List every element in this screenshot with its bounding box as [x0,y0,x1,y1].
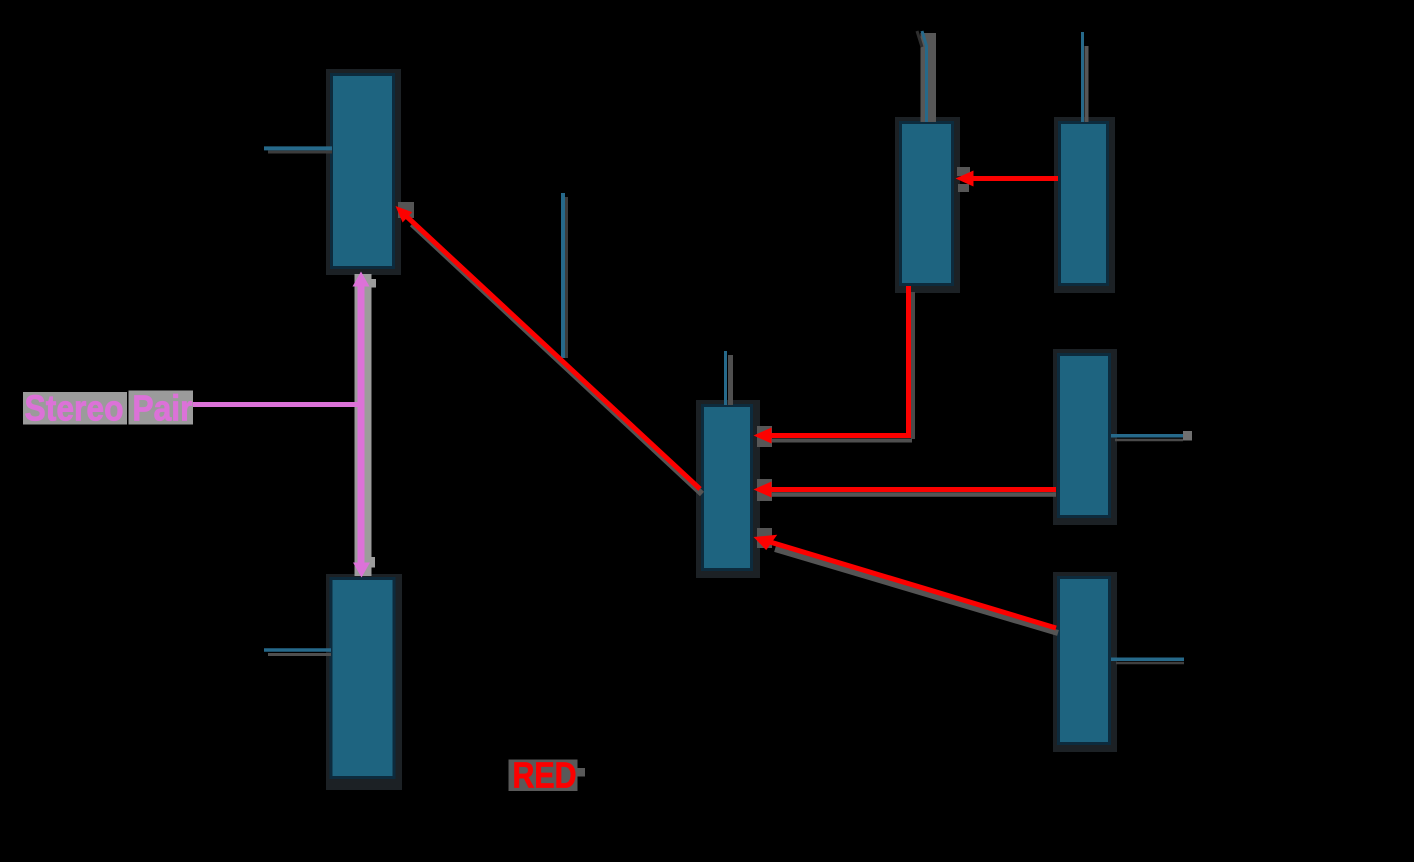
arrowhead at box D of red arrow E to D [956,171,974,187]
shadow of tall stub wire at center-left [565,197,568,358]
dark tick at top of box D stub wire [917,31,922,47]
box F (middle-right block) [1059,355,1110,517]
shadow block behind word Stereo [23,392,127,425]
shadow of callout wire right of box G [1116,662,1184,665]
callout wire left of box A [264,146,332,150]
stub wire above box E [1081,32,1084,122]
shadow band of stub wire above box E [1085,46,1089,122]
shadow block at head of red diagonal arrow G to C [757,528,772,548]
shadow block behind word RED [509,760,578,792]
shadow of red diagonal arrow C to A [412,224,702,494]
box A (top-left camera block) [332,75,394,268]
red diagonal arrow from box G to box C [769,542,1056,628]
shadow of callout wire right of box F [1115,439,1183,442]
callout wire left of box B [264,648,331,652]
red diagonal arrow from box C to box A [404,214,700,489]
shadow nub at bottom arrowhead of violet arrow [368,557,376,568]
stub wire above box C [724,351,727,405]
shadow block at head of red elbow arrow D to C [757,426,772,447]
gray end block of callout wire right of box F [1183,431,1192,441]
shadow of stub wire above box C [728,355,733,405]
shadow halo of box F [1053,349,1117,525]
shadow nub right of word RED [578,768,586,777]
shadow block at head of red diagonal arrow C to A [398,202,414,218]
tall stub wire at center-left [561,193,565,358]
shadow of red arrow F to C [766,492,1056,497]
shadow halo of box A [326,69,401,275]
red arrow from box F to box C [771,487,1056,492]
shadow block below head of red arrow E to D [958,184,969,192]
shadow of callout wire left of box B [268,653,331,656]
shadow halo of box B [326,574,402,790]
shadow block above head of red arrow E to D [957,167,970,176]
arrowhead at box C of red diagonal arrow G to C [754,535,778,550]
shadow halo of box G [1053,572,1117,752]
red arrow from box E to box D [971,176,1058,181]
shadow of callout wire left of box A [268,151,332,154]
svg-text:RED: RED [513,755,577,796]
violet leader wire from Stereo Pair label [193,402,360,407]
box C (center block) [703,406,752,570]
box G (bottom-right block) [1059,578,1110,744]
box B (bottom-left camera block) [331,579,394,778]
shadow column of violet stereo-pair arrow [355,274,372,576]
shadow halo of box E [1054,117,1115,293]
violet arrowhead pointing up into box A [353,272,370,287]
arrowhead at box C of red arrow F to C [754,482,772,498]
shadow band of stub wire above box D [921,33,937,122]
violet double-headed arrow between box A and box B [358,284,365,564]
shadow of red elbow wire horizontal into box C [770,439,912,443]
stub wire above box D [922,31,927,122]
svg-text:Stereo Pair: Stereo Pair [25,388,193,429]
shadow halo of box D [895,117,960,293]
callout wire right of box G [1111,658,1184,662]
box D (upper middle-right block) [901,123,953,285]
shadow block behind word Pair [129,391,194,425]
shadow of red elbow wire vertical from box D [911,292,915,439]
shadow halo of box C [696,400,760,578]
box E (upper far-right block) [1060,123,1108,285]
violet arrowhead pointing down into box B [353,563,370,578]
callout wire right of box F [1111,434,1183,438]
shadow nub at top arrowhead of violet arrow [368,279,376,288]
arrowhead at box A of red diagonal arrow [396,206,413,223]
shadow block at head of red arrow F to C [757,479,772,501]
red elbow arrow from box D bottom to box C [766,286,909,436]
shadow of red diagonal arrow G to C [775,549,1058,633]
arrowhead at box C of red elbow arrow [754,428,772,444]
